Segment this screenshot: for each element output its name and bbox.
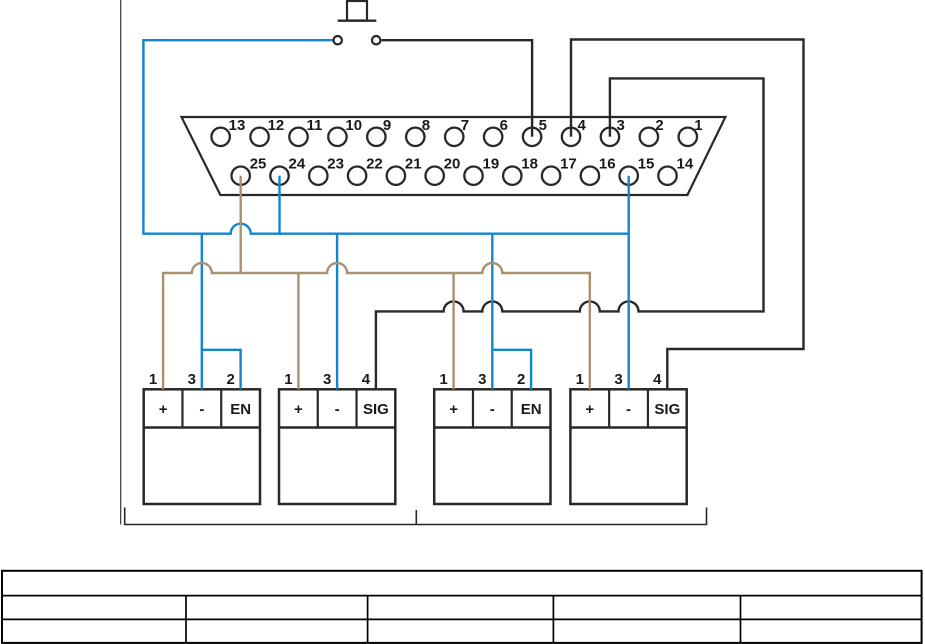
svg-text:9: 9 — [383, 117, 391, 134]
svg-text:22: 22 — [366, 156, 383, 173]
svg-text:-: - — [335, 401, 340, 418]
svg-text:8: 8 — [422, 117, 430, 134]
svg-text:25: 25 — [250, 156, 267, 173]
svg-text:21: 21 — [405, 156, 422, 173]
svg-text:3: 3 — [188, 371, 196, 388]
svg-text:3: 3 — [478, 371, 486, 388]
svg-text:17: 17 — [560, 156, 577, 173]
svg-text:+: + — [159, 401, 168, 418]
svg-text:-: - — [626, 401, 631, 418]
svg-text:24: 24 — [289, 156, 306, 173]
svg-text:+: + — [585, 401, 594, 418]
svg-text:4: 4 — [362, 371, 371, 388]
svg-text:13: 13 — [229, 117, 246, 134]
svg-text:-: - — [490, 401, 495, 418]
svg-text:23: 23 — [327, 156, 344, 173]
svg-text:+: + — [449, 401, 458, 418]
svg-text:SIG: SIG — [363, 401, 389, 418]
svg-text:1: 1 — [576, 371, 584, 388]
svg-text:19: 19 — [483, 156, 500, 173]
svg-text:2: 2 — [226, 371, 234, 388]
svg-text:10: 10 — [345, 117, 362, 134]
svg-text:15: 15 — [638, 156, 655, 173]
svg-text:12: 12 — [268, 117, 285, 134]
svg-text:SIG: SIG — [654, 401, 680, 418]
svg-text:4: 4 — [578, 117, 587, 134]
svg-text:4: 4 — [653, 371, 662, 388]
svg-text:5: 5 — [539, 117, 547, 134]
svg-text:7: 7 — [461, 117, 469, 134]
svg-text:3: 3 — [616, 117, 624, 134]
svg-text:EN: EN — [521, 401, 542, 418]
svg-text:-: - — [199, 401, 204, 418]
svg-text:14: 14 — [677, 156, 694, 173]
svg-text:+: + — [294, 401, 303, 418]
svg-text:EN: EN — [230, 401, 251, 418]
svg-text:11: 11 — [307, 117, 323, 134]
svg-text:3: 3 — [614, 371, 622, 388]
svg-text:2: 2 — [517, 371, 525, 388]
svg-text:6: 6 — [500, 117, 508, 134]
svg-text:2: 2 — [655, 117, 663, 134]
svg-text:1: 1 — [439, 371, 447, 388]
svg-text:3: 3 — [323, 371, 331, 388]
svg-text:16: 16 — [599, 156, 616, 173]
svg-text:18: 18 — [521, 156, 538, 173]
svg-text:1: 1 — [149, 371, 157, 388]
svg-text:20: 20 — [444, 156, 461, 173]
svg-text:1: 1 — [284, 371, 292, 388]
svg-text:1: 1 — [694, 117, 702, 134]
